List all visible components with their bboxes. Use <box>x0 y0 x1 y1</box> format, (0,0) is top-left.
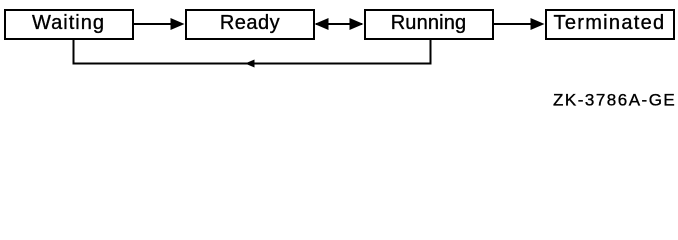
wire feedback Running down-left-up to Waiting <box>74 39 431 64</box>
arrowhead into Running (right) <box>350 18 364 30</box>
wire Running to Terminated <box>493 23 532 25</box>
wire Ready to Running <box>316 23 362 25</box>
state box Running <box>365 10 493 39</box>
svg-text:Running: Running <box>391 12 467 34</box>
state box Ready <box>186 10 314 39</box>
wire Waiting to Ready <box>132 23 172 25</box>
arrowhead on feedback wire (left) <box>245 60 255 68</box>
state box Waiting <box>5 10 133 39</box>
svg-text:Ready: Ready <box>220 12 280 34</box>
svg-text:Waiting: Waiting <box>32 12 105 34</box>
arrowhead into Ready <box>171 18 185 30</box>
state box Terminated <box>546 10 674 39</box>
arrowhead into Ready (left) <box>315 18 329 30</box>
arrowhead into Terminated <box>531 18 545 30</box>
svg-text:ZK-3786A-GE: ZK-3786A-GE <box>553 91 676 110</box>
svg-text:Terminated: Terminated <box>554 12 666 34</box>
